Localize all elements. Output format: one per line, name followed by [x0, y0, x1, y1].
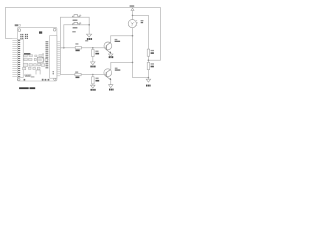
motor / fan M1	[128, 20, 136, 28]
mounting hole bottom-left	[18, 79, 20, 81]
wire Q1 emitter to ground	[110, 53, 112, 54]
left header pin pads	[18, 40, 20, 77]
buzzer BZ1	[72, 15, 79, 18]
wire Q1 collector up to motor column	[111, 36, 133, 43]
board title text	[19, 87, 29, 89]
resistor R1	[75, 47, 81, 50]
junction node: Q1 collector on motor column	[132, 35, 134, 37]
board interior parts row C	[23, 63, 44, 66]
connector J1	[36, 70, 40, 74]
right header pin pads	[46, 41, 49, 68]
wire motor bottom down to return corner	[133, 28, 149, 78]
net label near R2 junction	[85, 40, 88, 41]
ground (R4)	[91, 85, 96, 88]
wire R2 pulldown branch	[92, 48, 94, 62]
bottom pads	[24, 79, 50, 81]
junction node: buzzer returns join	[88, 24, 90, 26]
transistor Q1	[104, 42, 112, 50]
board label U1	[15, 24, 18, 26]
board interior parts row A	[24, 55, 43, 57]
ground (Q2 emitter)	[109, 85, 114, 88]
wire net A0 pin to divider midpoint (big loop)	[5, 7, 160, 60]
board interior parts row B	[24, 58, 48, 61]
right pin header	[50, 36, 57, 79]
mounting hole top-right	[53, 28, 56, 31]
mounting hole bottom-right	[54, 78, 56, 80]
wire buzzer BZ1 right to GND	[79, 17, 89, 34]
IC U2	[37, 57, 43, 62]
ground (Q1 emitter)	[109, 54, 114, 57]
wire buzzer BZ2 left to pin/R1 line	[64, 25, 73, 48]
wire Q2 collector up and to motor column	[111, 62, 133, 69]
wire buzzer BZ2 right joins BZ1 right	[79, 24, 89, 26]
wire power rail to divider top	[133, 15, 149, 49]
wire buzzer BZ1 left to R3 line (Q2 base net)	[60, 17, 104, 74]
buzzer BZ2	[72, 22, 79, 25]
wire Q2 emitter to ground	[110, 80, 112, 85]
wire power arrow to motor top	[132, 15, 134, 19]
junction node: +5V rail split	[132, 15, 134, 17]
wire pin D? through R1 to Q1 base	[57, 47, 106, 49]
left pin header	[17, 39, 23, 77]
mounting hole top-left	[18, 29, 21, 32]
right pins	[57, 42, 64, 76]
junction node: R2 pulldown tap on Q1 base line	[92, 47, 94, 49]
transistor Q2	[104, 69, 112, 77]
wire R4 pulldown branch	[92, 75, 94, 86]
resistor R5 (divider top)	[147, 49, 150, 56]
ICSP header pads	[20, 34, 28, 39]
resistor R3	[75, 73, 81, 76]
silk text ARDUINO	[24, 53, 30, 55]
resistor R2 (pulldown)	[92, 50, 95, 57]
junction node: buzzer BZ2 tap on R1 line	[63, 47, 65, 49]
interior parts row D	[23, 67, 40, 70]
left pins	[12, 38, 17, 76]
ground (R2)	[91, 62, 96, 65]
junction node: divider midpoint	[148, 59, 150, 61]
net label near buzzer gnd wire	[72, 31, 75, 32]
resistor R6 (divider bottom)	[147, 62, 150, 69]
junction node: motor return at divider bottom	[148, 77, 150, 79]
silk marks left of right header	[42, 53, 44, 56]
ground (buzzers)	[87, 34, 92, 37]
junction node: Q2 collector on motor column	[132, 62, 134, 64]
resistor R4 (pulldown Q2)	[92, 77, 95, 84]
wire divider bottom to ground	[147, 70, 149, 80]
ground (divider)	[146, 79, 151, 82]
pads OOO	[25, 74, 27, 76]
crystal Y1	[39, 31, 42, 33]
Arduino board U1 outline	[17, 28, 57, 81]
junction dot R4 branch	[92, 74, 94, 76]
power symbol 5V arrow	[132, 10, 134, 16]
right header lower pads	[53, 71, 54, 72]
wire between divider resistors	[147, 56, 149, 62]
